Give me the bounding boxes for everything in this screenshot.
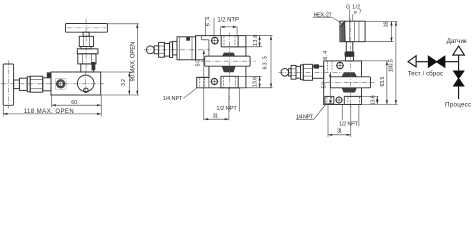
svg-text:50: 50	[321, 82, 327, 89]
svg-text:Процесс: Процесс	[445, 101, 471, 108]
svg-text:118 MAX. OPEN: 118 MAX. OPEN	[24, 109, 74, 115]
svg-text:6.4: 6.4	[206, 17, 212, 27]
svg-text:1/2 NPT: 1/2 NPT	[339, 122, 359, 128]
svg-text:⌀7: ⌀7	[354, 10, 362, 16]
svg-text:100.5: 100.5	[389, 59, 395, 72]
svg-text:1/2 NTP: 1/2 NTP	[217, 18, 239, 24]
svg-text:6.4: 6.4	[323, 51, 329, 60]
svg-text:90 MAX. OPEN: 90 MAX. OPEN	[130, 42, 136, 82]
svg-text:13.6: 13.6	[252, 77, 258, 88]
svg-text:HEX. 27: HEX. 27	[314, 12, 332, 18]
svg-text:50: 50	[196, 60, 202, 67]
svg-text:13.6: 13.6	[253, 34, 259, 46]
svg-text:16: 16	[384, 22, 390, 28]
svg-text:1/4 NPT: 1/4 NPT	[296, 114, 314, 120]
svg-text:13.6: 13.6	[371, 95, 377, 105]
svg-text:31: 31	[337, 129, 342, 135]
svg-text:1/2 NPT: 1/2 NPT	[216, 106, 237, 112]
svg-text:Тест / сброс: Тест / сброс	[408, 70, 443, 78]
svg-text:63.5: 63.5	[262, 56, 268, 69]
svg-text:31: 31	[213, 114, 219, 120]
svg-text:63.5: 63.5	[380, 77, 386, 87]
svg-text:Датчик: Датчик	[447, 38, 467, 45]
svg-text:60: 60	[71, 100, 77, 106]
svg-text:1/4 NPT: 1/4 NPT	[163, 96, 183, 102]
svg-text:32: 32	[121, 79, 127, 86]
